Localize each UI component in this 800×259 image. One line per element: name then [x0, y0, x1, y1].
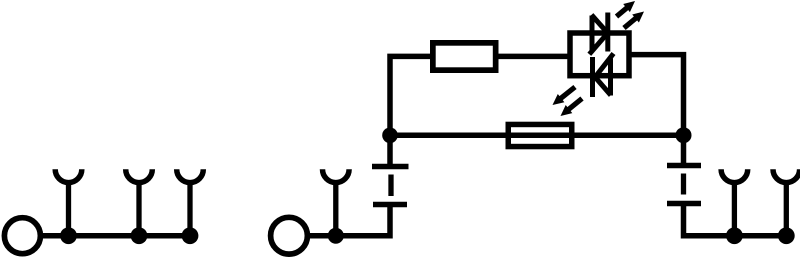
emission arrow 3 (down-left) shaft: [559, 87, 575, 100]
LED D2 triangle upper edge (with overshoot): [595, 54, 614, 78]
node A (left junction): [382, 128, 398, 144]
LED block outline (parallel branch loop): [570, 33, 629, 76]
disconnect blade dash (right): [681, 174, 686, 195]
emission arrow 4 head: [561, 105, 573, 116]
wire (left group bottom rail): [39, 233, 198, 239]
LED D2 cathode bar: [590, 57, 595, 97]
wire (LED block exit, right riser down): [629, 55, 684, 166]
junction dot 5: [726, 227, 743, 244]
junction dot 6: [778, 227, 795, 244]
wire (middle bottom rail, corner up to lower disconnect plate): [306, 205, 390, 236]
disconnect upper plate (left): [372, 164, 409, 170]
contact fork 1 (cup): [55, 169, 82, 182]
LED D1 cathode bar: [605, 13, 610, 52]
wire (top run under/past resistor to LED block): [430, 54, 571, 60]
LED D2 triangle lower edge: [595, 77, 611, 95]
disconnect lower plate (left): [373, 202, 407, 208]
emission arrow 1 head: [623, 1, 635, 12]
wire (fork 2 stem): [136, 181, 141, 236]
junction dot 2: [131, 227, 148, 244]
wire (fork 1 stem): [66, 181, 71, 236]
contact fork 2 (cup): [126, 169, 153, 182]
contact fork 3 (cup): [177, 169, 204, 182]
wire (middle rail through fuse): [390, 132, 684, 138]
contact fork 6 (cup): [773, 169, 800, 182]
wire (fork 6 stem): [784, 181, 789, 236]
resistor R: [433, 43, 496, 70]
emission arrow 4 (down-left) shaft: [567, 99, 582, 111]
LED D2 anode edge: [608, 59, 613, 96]
wire (left riser and top run to resistor): [390, 56, 432, 166]
LED D1 triangle upper edge: [592, 15, 608, 33]
emission arrow 2 head: [632, 12, 644, 23]
emission arrow 2 (up-right) shaft: [624, 17, 637, 28]
wire (right bottom rail): [684, 204, 794, 236]
emission arrow 1 (up-right) shaft: [617, 7, 629, 17]
terminal screw circle (middle feed): [271, 217, 308, 254]
disconnect blade dash (left): [388, 175, 393, 197]
wire (fork 4 stem): [333, 181, 338, 236]
disconnect upper plate (right): [667, 163, 701, 169]
contact fork 5 (cup): [721, 169, 748, 182]
wire (fork 3 stem): [187, 181, 192, 236]
emission arrow 3 head: [553, 94, 565, 105]
contact fork 4 (cup): [323, 169, 350, 182]
wire (fork 5 stem): [732, 181, 737, 236]
fuse F: [508, 124, 572, 146]
junction dot 4: [328, 228, 344, 244]
node B (right junction): [676, 127, 692, 143]
LED D1 anode edge: [590, 16, 595, 51]
junction dot 1: [60, 227, 77, 244]
LED D1 triangle lower edge (with overshoot): [589, 33, 607, 54]
terminal screw circle (left feed-through): [4, 218, 40, 254]
disconnect lower plate (right): [667, 201, 701, 207]
junction dot 3: [182, 227, 199, 244]
